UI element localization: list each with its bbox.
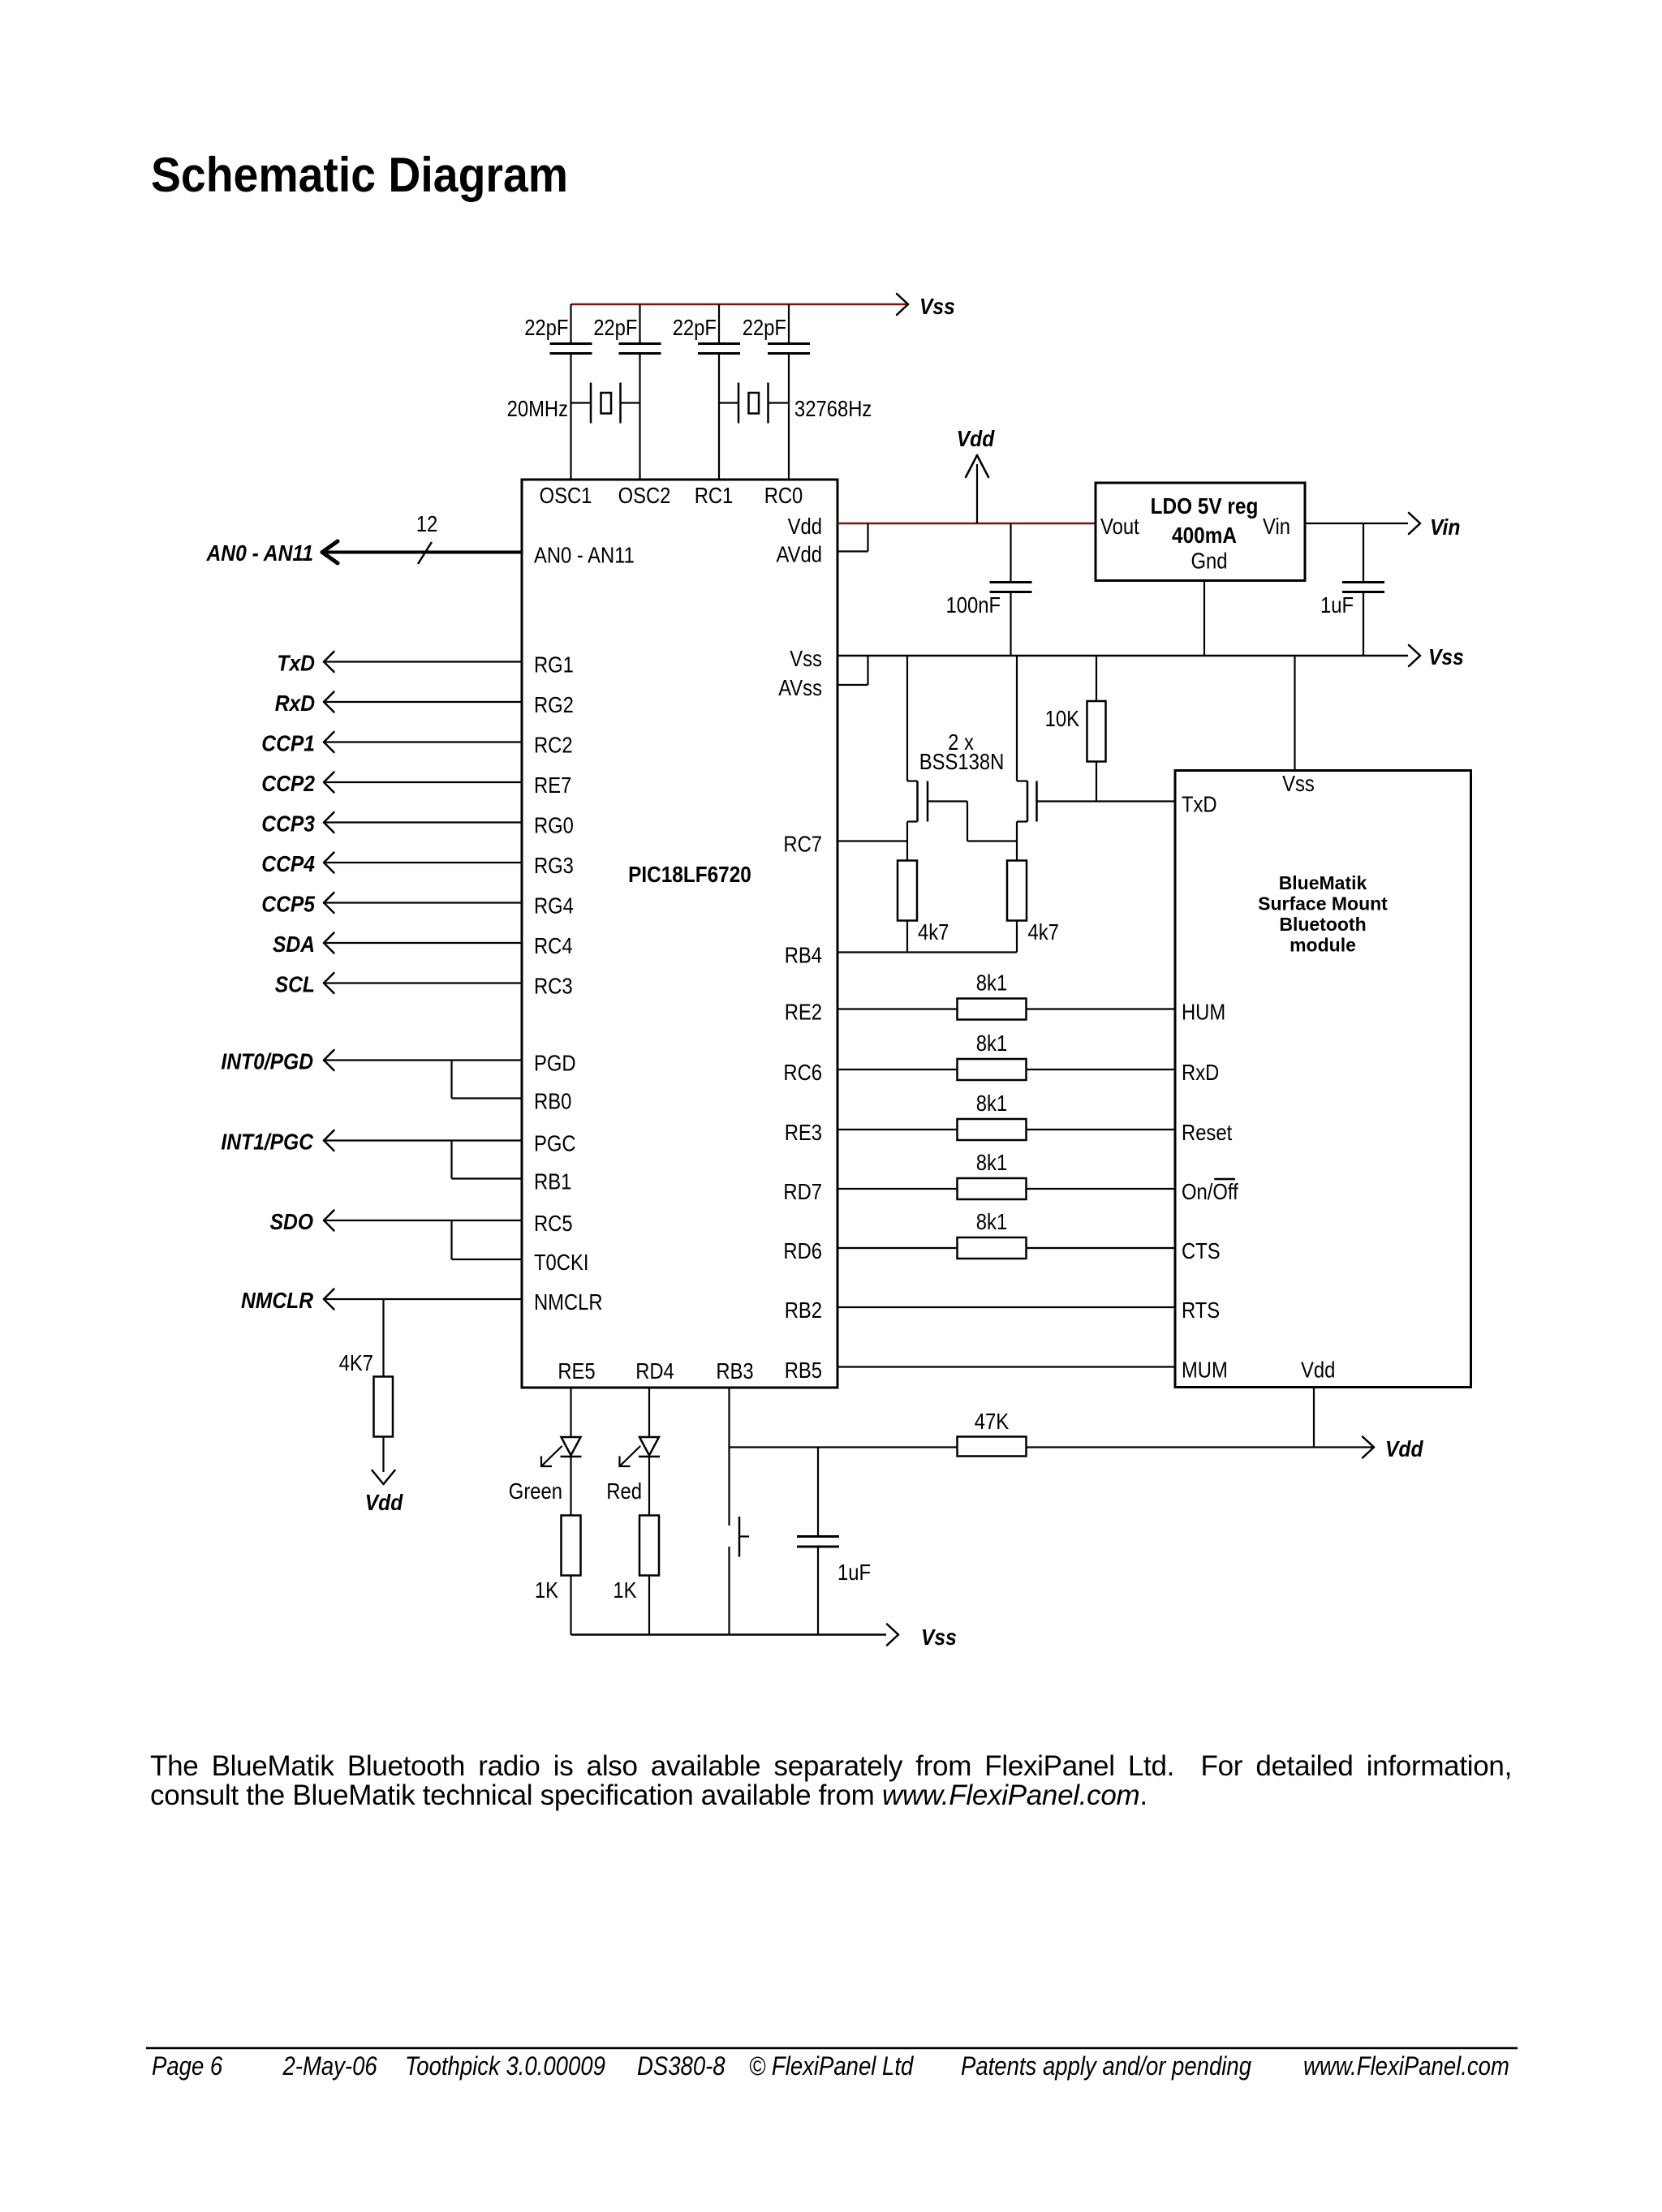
wire RE7 to CCP2 bbox=[324, 781, 522, 783]
wire AVss bracket bbox=[837, 684, 868, 686]
resistor R11 1K bbox=[639, 1516, 659, 1576]
svg-text:RC1: RC1 bbox=[695, 483, 734, 508]
resistor R3 4k7 bbox=[898, 861, 917, 921]
svg-text:RB4: RB4 bbox=[785, 943, 822, 968]
svg-text:RC4: RC4 bbox=[534, 933, 573, 958]
resistor R5 8k1 bbox=[958, 999, 1027, 1020]
svg-text:22pF: 22pF bbox=[673, 315, 717, 340]
arrow CCP2 bbox=[324, 772, 334, 783]
svg-text:4k7: 4k7 bbox=[918, 919, 949, 945]
wire RD7 to module bbox=[837, 1188, 1175, 1190]
svg-text:INT0/PGD: INT0/PGD bbox=[221, 1049, 313, 1074]
svg-text:OSC2: OSC2 bbox=[618, 483, 671, 508]
svg-text:22pF: 22pF bbox=[593, 315, 637, 340]
net Vss rail right bbox=[837, 655, 1408, 657]
wire AVdd bracket bbox=[837, 550, 868, 552]
capacitor C3 22pF bbox=[698, 342, 740, 345]
bus AN0 - AN11 wire bbox=[323, 551, 522, 554]
resistor R6 8k1 bbox=[958, 1059, 1027, 1080]
resistor R1 4K7 bbox=[374, 1377, 394, 1437]
wire RG0 to CCP3 bbox=[324, 821, 522, 823]
LED D2 Red bbox=[639, 1437, 659, 1456]
svg-text:RC7: RC7 bbox=[783, 832, 822, 857]
paragraph text bbox=[150, 1752, 1512, 1810]
wire R3 to RB4 bbox=[906, 921, 908, 953]
svg-text:8k1: 8k1 bbox=[976, 1150, 1007, 1175]
arrow Vdd down bbox=[372, 1470, 384, 1484]
svg-text:SCL: SCL bbox=[275, 972, 315, 997]
arrow SCL bbox=[324, 973, 334, 983]
wire RB3 down bbox=[728, 1388, 730, 1526]
svg-text:PGD: PGD bbox=[534, 1051, 576, 1076]
arrow Vdd right bbox=[1363, 1437, 1374, 1448]
svg-text:AN0 - AN11: AN0 - AN11 bbox=[206, 540, 313, 566]
svg-text:47K: 47K bbox=[975, 1409, 1010, 1434]
arrow CCP1 bbox=[324, 732, 334, 742]
svg-text:© FlexiPanel Ltd: © FlexiPanel Ltd bbox=[749, 2051, 914, 2081]
svg-text:RE7: RE7 bbox=[534, 772, 571, 798]
wire RB3 node to 47K bbox=[730, 1446, 958, 1448]
svg-text:Toothpick 3.0.00009: Toothpick 3.0.00009 bbox=[405, 2051, 605, 2081]
svg-text:1K: 1K bbox=[535, 1577, 558, 1603]
wire R10 to Vss bbox=[570, 1576, 571, 1635]
svg-text:CCP4: CCP4 bbox=[261, 851, 315, 876]
svg-text:RxD: RxD bbox=[275, 691, 315, 716]
svg-text:CTS: CTS bbox=[1182, 1238, 1221, 1263]
svg-text:RTS: RTS bbox=[1182, 1298, 1220, 1323]
svg-text:22pF: 22pF bbox=[743, 315, 786, 340]
wire RB4 bbox=[837, 951, 1017, 953]
wire NMCLR pullup bbox=[382, 1299, 384, 1377]
svg-text:Vss: Vss bbox=[921, 1625, 957, 1650]
svg-text:AVss: AVss bbox=[778, 675, 822, 700]
wire PGD to INT0/PGD bbox=[324, 1059, 522, 1061]
net Vdd wire (red) PIC to LDO bbox=[837, 523, 1096, 525]
svg-text:RC5: RC5 bbox=[534, 1211, 573, 1236]
svg-text:10K: 10K bbox=[1045, 706, 1080, 731]
svg-text:4K7: 4K7 bbox=[339, 1350, 373, 1375]
svg-text:RE5: RE5 bbox=[558, 1358, 595, 1384]
svg-text:Vdd: Vdd bbox=[1301, 1358, 1335, 1383]
svg-text:Vss: Vss bbox=[919, 294, 955, 319]
wire RD4 down bbox=[648, 1388, 650, 1437]
arrow CCP5 bbox=[324, 893, 334, 903]
wire LDO Gnd to Vss bbox=[1203, 581, 1205, 656]
svg-text:RB1: RB1 bbox=[534, 1169, 571, 1194]
svg-text:AVdd: AVdd bbox=[777, 542, 823, 567]
arrow Vss bottom bbox=[887, 1625, 898, 1635]
module U3 BlueMatik box bbox=[1175, 771, 1471, 1388]
resistor R2 10K riser top bbox=[1096, 656, 1097, 701]
wire RC1 column bbox=[718, 304, 720, 344]
svg-text:RB2: RB2 bbox=[785, 1298, 822, 1323]
svg-text:Reset: Reset bbox=[1182, 1120, 1232, 1145]
svg-text:RB5: RB5 bbox=[785, 1358, 822, 1383]
arrow NMCLR bbox=[324, 1289, 334, 1300]
resistor R4 4k7 bbox=[1007, 861, 1027, 921]
wire RG4 to CCP5 bbox=[324, 902, 522, 903]
svg-text:RG2: RG2 bbox=[534, 692, 574, 717]
wire bracket RC5-T0CKI bbox=[450, 1220, 452, 1259]
switch SW1 bbox=[728, 1547, 730, 1635]
svg-text:20MHz: 20MHz bbox=[507, 396, 568, 421]
svg-text:BSS138N: BSS138N bbox=[919, 749, 1005, 774]
wire RB5 to MUM bbox=[837, 1366, 1175, 1367]
bus AN0 - AN11 arrow bbox=[322, 541, 338, 553]
wire D1 to R10 bbox=[570, 1457, 571, 1516]
svg-text:RE2: RE2 bbox=[785, 1000, 822, 1025]
resistor R12 47K bbox=[958, 1437, 1027, 1457]
capacitor C2 22pF bbox=[619, 342, 661, 345]
wire RC7 bbox=[837, 840, 907, 841]
capacitor C6 1uF plates bbox=[1342, 581, 1384, 583]
svg-text:Bluetooth: Bluetooth bbox=[1279, 914, 1366, 935]
LED D1 emission arrow bbox=[542, 1446, 562, 1466]
arrow TxD bbox=[324, 652, 334, 662]
svg-text:1K: 1K bbox=[613, 1577, 636, 1603]
wire OSC1 column bbox=[570, 304, 571, 344]
wire OSC2 column bbox=[639, 304, 640, 344]
wire R2 bottom bbox=[1096, 762, 1097, 802]
svg-text:RD4: RD4 bbox=[635, 1358, 674, 1384]
regulator U2 LDO box bbox=[1096, 483, 1305, 581]
svg-text:MUM: MUM bbox=[1182, 1358, 1228, 1383]
svg-text:Vss: Vss bbox=[790, 646, 822, 671]
svg-text:Red: Red bbox=[606, 1478, 642, 1504]
svg-text:Patents apply and/or pending: Patents apply and/or pending bbox=[961, 2051, 1251, 2081]
svg-text:DS380-8: DS380-8 bbox=[637, 2051, 726, 2081]
net Vss top rail (red) bbox=[571, 303, 908, 306]
Vss arrow top bbox=[897, 294, 908, 304]
svg-text:RD7: RD7 bbox=[783, 1179, 822, 1204]
wire RB2 to RTS bbox=[837, 1306, 1175, 1308]
svg-text:22pF: 22pF bbox=[524, 315, 568, 340]
arrow SDA bbox=[324, 933, 334, 944]
bus width slash bbox=[418, 542, 432, 564]
svg-text:CCP1: CCP1 bbox=[261, 731, 315, 756]
arrow RxD bbox=[324, 692, 334, 703]
svg-text:INT1/PGC: INT1/PGC bbox=[221, 1130, 313, 1155]
wire R1 to Vdd bbox=[382, 1437, 384, 1473]
wire RG3 to CCP4 bbox=[324, 862, 522, 863]
svg-text:RG4: RG4 bbox=[534, 893, 574, 919]
svg-text:SDA: SDA bbox=[273, 932, 315, 957]
wire Vdd arrow up riser bbox=[976, 464, 978, 523]
capacitor C1 22pF bbox=[550, 342, 592, 345]
svg-text:TxD: TxD bbox=[277, 651, 315, 676]
svg-text:Green: Green bbox=[509, 1478, 562, 1504]
crystal X2 32768Hz bbox=[719, 402, 738, 403]
wire RC4 to SDA bbox=[324, 942, 522, 944]
svg-text:HUM: HUM bbox=[1182, 1000, 1225, 1025]
svg-text:CCP3: CCP3 bbox=[261, 811, 315, 837]
wire RE2 to module bbox=[837, 1008, 1175, 1009]
wire D2 to R11 bbox=[648, 1457, 650, 1516]
svg-text:On/Off: On/Off bbox=[1182, 1179, 1238, 1204]
wire RG1 to TxD bbox=[324, 661, 522, 662]
svg-text:Vin: Vin bbox=[1430, 514, 1460, 540]
arrow INT0/PGD bbox=[324, 1050, 334, 1061]
arrow CCP3 bbox=[324, 812, 334, 823]
wire LDO Vin to arrow bbox=[1305, 523, 1408, 524]
svg-text:Surface Mount: Surface Mount bbox=[1258, 893, 1388, 914]
svg-text:RxD: RxD bbox=[1182, 1060, 1219, 1085]
wire RE3 to module bbox=[837, 1129, 1175, 1130]
svg-text:Gnd: Gnd bbox=[1191, 549, 1228, 574]
svg-text:400mA: 400mA bbox=[1172, 523, 1237, 548]
wire RC5 to SDO bbox=[324, 1220, 522, 1221]
transistor Q2 BSS138N bbox=[1017, 780, 1027, 781]
svg-text:Vin: Vin bbox=[1263, 514, 1290, 539]
svg-text:1uF: 1uF bbox=[837, 1560, 871, 1585]
svg-text:8k1: 8k1 bbox=[976, 970, 1007, 996]
capacitor C7 1uF riser bbox=[817, 1448, 819, 1537]
svg-text:NMCLR: NMCLR bbox=[534, 1289, 603, 1315]
svg-text:8k1: 8k1 bbox=[976, 1209, 1007, 1234]
svg-text:RB3: RB3 bbox=[716, 1358, 753, 1384]
svg-text:BlueMatik: BlueMatik bbox=[1279, 872, 1367, 893]
crystal X1 20MHz bbox=[571, 402, 592, 403]
svg-text:LDO 5V reg: LDO 5V reg bbox=[1151, 493, 1259, 519]
capacitor C4 22pF bbox=[768, 342, 810, 345]
svg-text:CCP5: CCP5 bbox=[261, 892, 315, 917]
wire M1 drain to Vss rail bbox=[906, 656, 908, 781]
wire R11 to Vss bbox=[648, 1576, 650, 1635]
svg-text:4k7: 4k7 bbox=[1028, 919, 1059, 945]
svg-text:Vdd: Vdd bbox=[957, 426, 995, 451]
wire RE5 down bbox=[570, 1388, 571, 1437]
wire RC2 to CCP1 bbox=[324, 741, 522, 742]
svg-text:2-May-06: 2-May-06 bbox=[282, 2051, 377, 2081]
resistor R10 1K bbox=[562, 1516, 581, 1576]
arrow INT1/PGC bbox=[324, 1130, 334, 1141]
svg-text:RG0: RG0 bbox=[534, 813, 574, 838]
svg-text:Page 6: Page 6 bbox=[152, 2051, 222, 2081]
svg-text:CCP2: CCP2 bbox=[261, 771, 315, 796]
svg-text:RG3: RG3 bbox=[534, 853, 574, 878]
wire Q1 gate bbox=[928, 800, 967, 802]
svg-text:RC2: RC2 bbox=[534, 733, 573, 758]
resistor R2 10K bbox=[1087, 701, 1106, 762]
svg-text:100nF: 100nF bbox=[946, 592, 1001, 618]
svg-text:Vdd: Vdd bbox=[1385, 1436, 1423, 1461]
svg-text:OSC1: OSC1 bbox=[540, 483, 592, 508]
svg-text:TxD: TxD bbox=[1182, 792, 1217, 817]
arrow Vss right bbox=[1409, 645, 1420, 656]
arrow CCP4 bbox=[324, 853, 334, 863]
svg-text:RC0: RC0 bbox=[764, 483, 803, 508]
wire R4 to RB4 bbox=[1016, 921, 1018, 953]
wire NMCLR bbox=[324, 1298, 522, 1300]
resistor R8 8k1 bbox=[958, 1178, 1027, 1199]
IC U1 PIC18LF6720 body bbox=[522, 480, 837, 1388]
svg-text:8k1: 8k1 bbox=[976, 1031, 1007, 1056]
LED D1 Green bbox=[562, 1437, 581, 1456]
svg-text:1uF: 1uF bbox=[1320, 592, 1354, 618]
svg-text:RD6: RD6 bbox=[783, 1238, 822, 1263]
capacitor C5 100nF riser bbox=[1010, 523, 1011, 583]
svg-text:Vout: Vout bbox=[1100, 514, 1139, 539]
net Vss bottom rail bbox=[571, 1633, 887, 1636]
wire 47K to Vdd arrow bbox=[1027, 1446, 1375, 1448]
svg-text:RE3: RE3 bbox=[785, 1120, 822, 1145]
svg-text:NMCLR: NMCLR bbox=[241, 1288, 314, 1313]
svg-text:PIC18LF6720: PIC18LF6720 bbox=[628, 862, 751, 887]
wire RD6 to module bbox=[837, 1247, 1175, 1249]
overline on Off bbox=[1214, 1178, 1235, 1181]
capacitor C6 1uF riser bbox=[1363, 523, 1364, 583]
svg-text:module: module bbox=[1290, 935, 1356, 956]
svg-text:8k1: 8k1 bbox=[976, 1091, 1007, 1116]
svg-text:Vss: Vss bbox=[1428, 644, 1464, 669]
svg-text:AN0 - AN11: AN0 - AN11 bbox=[534, 543, 635, 568]
transistor Q1 BSS138N bbox=[907, 780, 918, 781]
svg-text:32768Hz: 32768Hz bbox=[794, 396, 872, 421]
wire bracket PGC-RB1 bbox=[450, 1141, 452, 1179]
resistor R7 8k1 bbox=[958, 1119, 1027, 1140]
svg-text:RB0: RB0 bbox=[534, 1089, 571, 1114]
LED D2 emission arrow bbox=[620, 1446, 640, 1466]
svg-text:Schematic Diagram: Schematic Diagram bbox=[151, 148, 568, 202]
wire Q2 gate to TxD bbox=[1037, 800, 1176, 802]
svg-text:Vdd: Vdd bbox=[365, 1490, 403, 1515]
svg-text:SDO: SDO bbox=[270, 1209, 314, 1234]
svg-text:Vdd: Vdd bbox=[788, 514, 822, 539]
wire module Vdd pin bbox=[1313, 1388, 1315, 1448]
svg-text:RC3: RC3 bbox=[534, 974, 573, 999]
svg-text:12: 12 bbox=[416, 511, 438, 536]
capacitor C7 1uF plates bbox=[797, 1535, 839, 1538]
footer rule bbox=[146, 2047, 1518, 2050]
svg-text:www.FlexiPanel.com: www.FlexiPanel.com bbox=[1303, 2051, 1509, 2081]
wire RC0 column bbox=[788, 304, 790, 344]
svg-text:RG1: RG1 bbox=[534, 652, 574, 678]
resistor R9 8k1 bbox=[958, 1237, 1027, 1259]
wire module Vss pin bbox=[1294, 656, 1295, 771]
arrow SDO bbox=[324, 1211, 334, 1221]
wire PGC to INT1/PGC bbox=[324, 1139, 522, 1141]
wire M2 drain to Vss rail bbox=[1016, 656, 1018, 781]
wire bracket PGD-RB0 bbox=[450, 1061, 452, 1099]
arrow Vdd up bbox=[966, 455, 977, 477]
svg-text:PGC: PGC bbox=[534, 1131, 576, 1156]
svg-text:RC6: RC6 bbox=[783, 1060, 822, 1085]
wire RC3 to SCL bbox=[324, 982, 522, 983]
svg-text:T0CKI: T0CKI bbox=[534, 1250, 589, 1275]
wire RG2 to RxD bbox=[324, 701, 522, 703]
arrow Vin bbox=[1409, 513, 1420, 523]
capacitor C5 100nF plates bbox=[990, 581, 1032, 583]
svg-text:Vss: Vss bbox=[1282, 771, 1315, 796]
wire RC6 to module bbox=[837, 1069, 1175, 1070]
